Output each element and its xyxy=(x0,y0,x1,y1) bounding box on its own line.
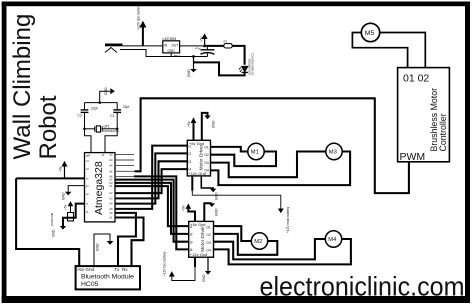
wire to upper driver I3 xyxy=(115,153,187,203)
border frame top bar xyxy=(2,2,470,7)
motor M1 xyxy=(248,143,264,159)
ground GND crystal top xyxy=(100,87,115,103)
border frame left bar xyxy=(2,2,7,304)
motor driver MD2 lower xyxy=(189,221,214,257)
svg-text:+12V main battery: +12V main battery xyxy=(286,207,290,233)
wire to lower driver I2 xyxy=(115,180,189,242)
node crystal right junction xyxy=(116,128,119,131)
svg-text:I2: I2 xyxy=(188,152,191,156)
wire M2 return to O2 xyxy=(214,234,278,255)
svg-text:M5: M5 xyxy=(365,30,375,37)
svg-text:Tx Rx: Tx Rx xyxy=(114,267,128,272)
power arrow +5v reset pullup xyxy=(64,201,74,212)
svg-text:GND: GND xyxy=(215,192,219,200)
wire to upper driver I1 xyxy=(115,169,187,193)
svg-text:I3: I3 xyxy=(190,240,193,244)
svg-text:+12V lipo battery: +12V lipo battery xyxy=(163,252,167,276)
wire +5v long loop to bluetooth xyxy=(16,178,79,266)
crystal QF1 16MHz xyxy=(85,124,120,133)
svg-text:O2: O2 xyxy=(204,153,209,157)
svg-text:I1: I1 xyxy=(190,225,193,229)
node crystal left junction xyxy=(83,128,86,131)
wire jack negative rail xyxy=(135,50,207,57)
svg-text:GND: GND xyxy=(212,120,216,128)
svg-text:O4: O4 xyxy=(204,169,209,173)
wire to upper driver I2 xyxy=(115,161,187,198)
wire pin stub PD2 xyxy=(115,165,134,167)
title Wall Climbing Robot xyxy=(9,14,62,160)
wire M3 return to O4 xyxy=(211,152,351,186)
node +5v junction dot xyxy=(203,45,206,48)
svg-text:GND: GND xyxy=(202,274,206,282)
svg-text:M2: M2 xyxy=(254,239,262,245)
svg-text:O1: O1 xyxy=(204,145,209,149)
wire crystal right leg to XTAL2 xyxy=(105,129,117,153)
motor driver MD1 upper xyxy=(187,140,210,176)
capacitor C1 22pf xyxy=(110,103,129,129)
motor M2 xyxy=(251,233,267,249)
brushless motor controller U3 xyxy=(398,68,450,163)
capacitor C2 22pf xyxy=(78,103,98,129)
svg-text:01 02: 01 02 xyxy=(403,73,429,85)
motor M3 xyxy=(326,143,342,159)
battery jack J1 xyxy=(105,44,135,53)
capacitor C3 47uf xyxy=(195,46,214,57)
svg-text:Motor Driver: Motor Driver xyxy=(198,144,203,170)
wire to lower driver I4 xyxy=(115,186,189,226)
svg-text:PWM: PWM xyxy=(400,151,426,163)
wire pin stub PD1 xyxy=(115,159,134,161)
power arrow +5v xyxy=(200,33,208,46)
svg-text:I3: I3 xyxy=(188,160,191,164)
svg-text:GND: GND xyxy=(96,243,100,251)
svg-text:Motor Driver: Motor Driver xyxy=(200,226,205,252)
svg-text:O3: O3 xyxy=(204,161,209,165)
border frame bottom bar xyxy=(2,296,470,303)
svg-text:GND: GND xyxy=(52,229,56,237)
wire to lower driver I3 xyxy=(115,183,189,234)
wire +5v rail to U1 VCC xyxy=(16,177,84,179)
wire +5v node to R1 xyxy=(205,45,224,47)
resistor R2 100KOHM pullup xyxy=(50,212,74,226)
wire upper O3 to M3 xyxy=(211,152,327,178)
wire lower driver +12v to lipo battery arrow xyxy=(163,252,196,281)
power arrow +5v upper driver xyxy=(187,117,196,140)
wire upper driver +12v to main battery arrow xyxy=(192,176,290,233)
svg-text:M4: M4 xyxy=(328,237,337,243)
wire M1 return to O2 xyxy=(211,152,277,167)
svg-text:I1: I1 xyxy=(188,144,191,148)
U1 pin labels right column xyxy=(110,152,113,219)
node GND junction dot xyxy=(192,55,195,58)
wire jack positive to LM7805 IN xyxy=(123,45,163,47)
svg-text:+12v Gnd: +12v Gnd xyxy=(190,252,207,257)
wire LM7805 GND pin xyxy=(170,53,172,57)
svg-text:I4: I4 xyxy=(190,248,193,252)
LED D2 green xyxy=(239,53,254,75)
wire pin stub PD0 xyxy=(115,153,134,155)
svg-text:GND: GND xyxy=(215,208,219,216)
wire M5 left lead to pin 01 xyxy=(352,33,407,68)
svg-text:+5v: +5v xyxy=(182,205,186,211)
svg-text:HC05: HC05 xyxy=(81,281,99,288)
svg-text:+5v: +5v xyxy=(187,121,191,127)
svg-text:O2: O2 xyxy=(206,233,211,237)
wire lower O1 to M2 xyxy=(214,226,252,241)
wire LM7805 OUT to +5v node xyxy=(180,45,205,47)
motor M5 xyxy=(361,23,379,41)
svg-text:+5v Gnd: +5v Gnd xyxy=(77,267,95,272)
svg-text:O1: O1 xyxy=(206,225,211,229)
svg-text:Controller: Controller xyxy=(438,113,448,151)
wire M5 right lead to pin 02 xyxy=(380,33,426,68)
svg-text:+5v: +5v xyxy=(59,166,63,172)
svg-text:I2: I2 xyxy=(190,233,193,237)
node crystal top junction dot xyxy=(98,101,101,104)
wire TXD to bluetooth Tx xyxy=(115,213,136,266)
wire R1 to LED anode xyxy=(232,46,244,65)
microcontroller U1 Atmega328 xyxy=(85,153,116,222)
wire to lower driver I1 xyxy=(115,175,135,177)
svg-text:O4: O4 xyxy=(206,249,211,253)
wire U1 reset pin xyxy=(63,204,85,226)
resistor R1 xyxy=(224,40,233,49)
ground GND lower driver top xyxy=(204,203,218,221)
svg-text:100KOHM: 100KOHM xyxy=(50,212,54,226)
wire RXD to bluetooth Rx xyxy=(115,218,144,267)
wire PWM net to brushless controller xyxy=(115,170,136,172)
svg-text:I4: I4 xyxy=(188,168,191,172)
wire upper O1 to M1 xyxy=(211,147,249,152)
ground GND reset xyxy=(52,226,67,237)
power arrow +5v left rail xyxy=(59,161,68,179)
wire M4 return to O4 xyxy=(214,239,351,264)
power arrow +5v lower driver xyxy=(182,203,196,221)
wire crystal left leg to XTAL1 xyxy=(85,129,92,153)
svg-text:M3: M3 xyxy=(329,150,337,156)
motor M4 xyxy=(325,231,341,247)
svg-text:O3: O3 xyxy=(206,241,211,245)
ground GND U1 left pin xyxy=(62,186,85,200)
wire LED cathode return xyxy=(194,62,245,75)
svg-text:+5v: +5v xyxy=(64,204,68,210)
wire lower O3 to M4 xyxy=(214,239,326,259)
U1 pin labels left column xyxy=(86,153,105,214)
ground GND below U1 bluetooth gnd loop xyxy=(94,234,113,266)
wire crystal cap top rail xyxy=(85,102,118,104)
wire to upper driver I4 xyxy=(115,146,187,209)
bluetooth module HC05 xyxy=(76,266,140,289)
power arrow +12V lipo battery xyxy=(137,4,147,46)
svg-text:GND: GND xyxy=(62,192,66,200)
ground GND upper driver bottom xyxy=(201,176,218,200)
border frame right bar xyxy=(465,2,470,304)
ground GND lower driver bottom xyxy=(202,257,211,282)
ground GND top power xyxy=(187,57,197,78)
ground GND upper driver top xyxy=(202,113,216,140)
svg-text:Bluetooth Module: Bluetooth Module xyxy=(81,274,134,281)
svg-text:M1: M1 xyxy=(251,150,259,156)
regulator U2 LM7805 xyxy=(163,37,180,58)
